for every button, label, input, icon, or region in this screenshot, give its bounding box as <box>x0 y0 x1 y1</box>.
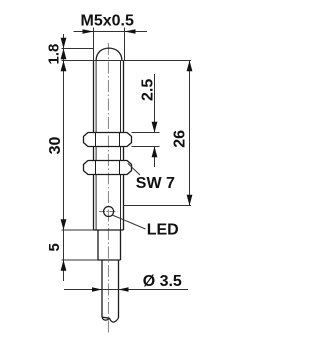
LED window circle <box>104 207 114 217</box>
M5 arrow right <box>125 29 136 34</box>
hex nut 2 <box>84 161 132 175</box>
svg-text:30: 30 <box>47 137 64 155</box>
thread inner line right <box>120 61 122 231</box>
body outer wall right <box>123 61 125 231</box>
cable bushing <box>98 230 121 260</box>
SW 7 leader line <box>128 163 140 175</box>
cable break curve <box>102 317 119 322</box>
arrow 5 bottom outside <box>61 260 67 271</box>
thread run line across body <box>94 60 124 62</box>
svg-text:5: 5 <box>46 243 63 251</box>
hex nut 1 <box>84 133 132 147</box>
2.5 dimension line upper <box>154 74 156 133</box>
left dimension line vertical <box>63 34 65 281</box>
arrow 2.5 top outside <box>152 122 158 133</box>
arrow 1.8 top outside <box>61 38 67 49</box>
svg-text:2.5: 2.5 <box>140 79 157 101</box>
extension line dome base long <box>62 60 192 62</box>
cable wall left <box>101 260 103 317</box>
extension line nut1 top <box>132 132 160 134</box>
extension line body bottom left <box>62 229 94 231</box>
extension line nut1 bottom <box>132 146 160 148</box>
arrow 2.5 bottom outside <box>152 147 158 158</box>
svg-text:26: 26 <box>172 130 189 148</box>
arrow 30 top <box>61 49 67 60</box>
svg-text:LED: LED <box>147 222 179 239</box>
M5 extension line right <box>124 28 126 61</box>
extension line LED top right <box>124 205 192 207</box>
arrow 1.8 bottom outside <box>61 61 67 72</box>
nut1 facet right <box>119 133 121 147</box>
svg-text:1.8: 1.8 <box>46 44 63 65</box>
svg-text:SW 7: SW 7 <box>136 175 175 192</box>
M5 extension line left <box>93 28 95 61</box>
M5 arrow left <box>83 29 94 34</box>
centerline vertical <box>107 43 109 333</box>
dome tip <box>96 48 122 60</box>
arrow cable right <box>119 287 129 292</box>
arrow cable left <box>92 287 102 292</box>
svg-text:M5x0.5: M5x0.5 <box>81 13 134 30</box>
nut2 facet left <box>95 161 97 175</box>
26 dimension line <box>189 61 191 206</box>
body bottom edge <box>94 229 124 231</box>
body outer wall left <box>93 61 95 231</box>
centerline LED horizontal <box>99 211 117 213</box>
M5 dimension line <box>74 31 148 33</box>
nut2 facet right <box>119 161 121 175</box>
arrow 26 top <box>187 61 193 72</box>
extension line top of dome <box>62 48 94 50</box>
thread inner line left <box>95 61 97 231</box>
cable wall right <box>118 260 120 318</box>
extension line bushing bottom left <box>62 259 99 261</box>
svg-text:Ø 3.5: Ø 3.5 <box>143 273 182 290</box>
cable diameter dimension line <box>64 289 188 291</box>
nut1 facet left <box>95 133 97 147</box>
LED leader line <box>112 215 145 229</box>
arrow 30 bottom <box>61 219 67 230</box>
arrow 26 bottom <box>187 195 193 206</box>
2.5 dimension line lower <box>154 147 156 168</box>
